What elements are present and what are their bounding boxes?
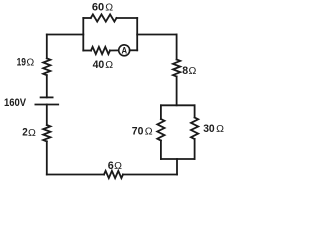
wire R40 to ammeter: [110, 49, 119, 51]
resistor R30 30ohm: [191, 118, 198, 140]
box2 bottom edge: [161, 158, 195, 160]
svg-text:70: 70: [132, 125, 144, 137]
wire battery to R2: [46, 105, 48, 126]
wire right rail upper: [176, 35, 178, 60]
box2 top edge: [161, 104, 195, 106]
box2 left edge lower: [160, 141, 162, 160]
box1 left edge: [82, 18, 84, 51]
wire right rail to box2: [176, 77, 178, 106]
svg-text:160V: 160V: [4, 97, 27, 109]
ammeter A circle: [119, 45, 130, 56]
box2 left edge upper: [160, 105, 162, 119]
svg-text:30: 30: [203, 123, 215, 135]
svg-text:2: 2: [22, 127, 28, 139]
svg-text:Ω: Ω: [105, 59, 113, 71]
box1 right edge: [136, 18, 138, 50]
box2 right edge lower: [194, 139, 196, 159]
svg-text:Ω: Ω: [216, 123, 224, 135]
resistor R60 60ohm: [91, 14, 117, 21]
battery 160V long plate: [35, 104, 58, 106]
wire output middle: [137, 34, 176, 36]
wire left rail upper: [46, 35, 48, 59]
svg-text:Ω: Ω: [114, 160, 122, 172]
box2 right edge upper: [194, 105, 196, 117]
wire top branch left stub: [83, 17, 91, 19]
wire bottom right segment: [123, 174, 177, 176]
svg-text:Ω: Ω: [28, 127, 36, 139]
wire ammeter to box1 right edge: [130, 49, 138, 51]
svg-text:A: A: [122, 46, 128, 56]
svg-text:6: 6: [108, 160, 114, 172]
svg-text:40: 40: [93, 59, 105, 71]
wire top branch right stub: [117, 17, 138, 19]
wire left rail lower: [46, 141, 48, 174]
wire bottom left segment: [47, 174, 104, 176]
resistor R6 6ohm: [104, 171, 123, 178]
svg-text:19: 19: [17, 57, 26, 69]
resistor R70 70ohm: [157, 119, 164, 141]
svg-text:60: 60: [92, 1, 104, 13]
resistor R19 19ohm: [43, 58, 50, 75]
resistor R8 8ohm: [173, 60, 180, 77]
svg-text:Ω: Ω: [105, 2, 113, 14]
svg-text:Ω: Ω: [189, 65, 197, 77]
wire top-left horizontal: [47, 34, 84, 36]
resistor R40 40ohm: [91, 47, 110, 54]
wire box2 output stub: [176, 159, 178, 175]
wire left rail to battery: [46, 75, 48, 97]
battery 160V short plate: [41, 96, 53, 98]
resistor R2 2ohm: [43, 125, 50, 141]
wire bottom branch left stub: [83, 50, 91, 52]
svg-text:Ω: Ω: [145, 126, 153, 138]
svg-text:Ω: Ω: [26, 57, 34, 69]
svg-text:8: 8: [182, 65, 188, 77]
